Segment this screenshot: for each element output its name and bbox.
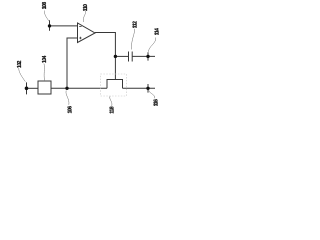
transistor 118 dashed outline bbox=[101, 74, 127, 96]
leader for label 102 bbox=[19, 68, 26, 82]
junction dot node 114 bbox=[146, 55, 149, 58]
wire: resistor 104 to transistor 118 source bbox=[51, 87, 107, 89]
leader for label 114 bbox=[148, 38, 156, 52]
junction dot node 106 bbox=[65, 87, 68, 90]
svg-text:106: 106 bbox=[68, 106, 74, 114]
svg-text:118: 118 bbox=[110, 106, 116, 113]
svg-text:110: 110 bbox=[83, 4, 89, 11]
leader for label 104 bbox=[43, 64, 46, 81]
junction dot node 108 bbox=[48, 24, 51, 27]
leader for label 110 bbox=[83, 11, 85, 22]
op-amp 110 bbox=[78, 23, 96, 43]
wire: op-amp output to gate node bbox=[95, 33, 115, 57]
svg-text:108: 108 bbox=[42, 2, 48, 10]
node 108 terminal stub bbox=[49, 20, 51, 31]
junction dot node 116 bbox=[146, 87, 149, 90]
capacitor 112 bbox=[129, 52, 133, 62]
resistor 104 box bbox=[38, 81, 51, 94]
wire: gate vertical into transistor 118 bbox=[114, 56, 116, 79]
wire: gate node to capacitor 112 left plate bbox=[115, 55, 128, 57]
leader for label 106 bbox=[66, 91, 69, 105]
wire: op-amp non-inverting input feedback, down to node 106 bbox=[67, 38, 78, 88]
svg-text:114: 114 bbox=[154, 28, 160, 35]
leader for label 112 bbox=[131, 29, 134, 50]
leader for label 118 bbox=[110, 96, 112, 107]
junction dot gate node bbox=[114, 55, 117, 58]
svg-text:116: 116 bbox=[154, 99, 160, 106]
node 114 terminal stub bbox=[147, 52, 149, 60]
leader for label 116 bbox=[149, 91, 155, 99]
svg-text:112: 112 bbox=[132, 21, 138, 28]
wire: node 102 to resistor 104 bbox=[27, 87, 39, 89]
svg-text:104: 104 bbox=[42, 55, 48, 63]
junction dot node 102 bbox=[25, 87, 29, 91]
transistor 118 channel hat bbox=[107, 80, 123, 89]
wire: capacitor to output terminal 114 bbox=[132, 55, 155, 57]
node 102 terminal stub bbox=[26, 82, 28, 94]
svg-text:102: 102 bbox=[17, 60, 23, 68]
wire: node 108 to op-amp inverting input bbox=[50, 25, 78, 27]
node 116 terminal stub bbox=[147, 84, 149, 93]
wire: transistor drain to node 116 bbox=[123, 87, 156, 89]
leader for label 108 bbox=[44, 11, 49, 22]
